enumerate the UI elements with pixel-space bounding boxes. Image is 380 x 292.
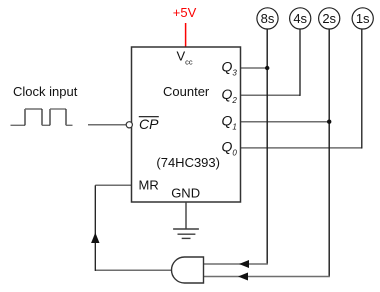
arrowhead feedback to MR bbox=[91, 233, 99, 244]
svg-text:GND: GND bbox=[171, 186, 200, 201]
arrowhead into AND input 2 bbox=[238, 273, 248, 281]
wire Q2 output bbox=[241, 29, 301, 96]
svg-text:Clock input: Clock input bbox=[13, 84, 78, 99]
wire 2s net vertical bbox=[328, 29, 330, 277]
svg-text:8s: 8s bbox=[261, 11, 275, 26]
wire +5V to Vcc bbox=[185, 23, 187, 47]
svg-text:4s: 4s bbox=[293, 11, 307, 26]
wire AND output feedback bbox=[95, 185, 171, 271]
terminal 2s bbox=[319, 8, 340, 29]
IC U1 74HC393 body bbox=[132, 47, 241, 202]
svg-text:Counter: Counter bbox=[163, 84, 210, 99]
junction node Q1-2s bbox=[327, 120, 331, 124]
svg-text:2s: 2s bbox=[322, 11, 336, 26]
svg-text:(74HC393): (74HC393) bbox=[156, 155, 220, 170]
and-gate U2 (mirrored, inputs right) bbox=[172, 257, 204, 283]
wire Q3 output bbox=[241, 67, 268, 69]
wire Q0 output bbox=[241, 29, 362, 149]
CP overline bbox=[139, 116, 159, 118]
CP inversion bubble bbox=[126, 122, 132, 128]
svg-text:1s: 1s bbox=[356, 11, 370, 26]
terminal 4s bbox=[290, 8, 311, 29]
clock waveform symbol bbox=[11, 109, 73, 125]
svg-text:+5V: +5V bbox=[173, 5, 197, 20]
arrowhead into AND input 1 bbox=[239, 260, 249, 268]
wire 8s net vertical bbox=[266, 29, 268, 264]
wire MR input bbox=[95, 184, 131, 186]
wire Q1 output bbox=[241, 121, 330, 123]
terminal 8s bbox=[257, 8, 278, 29]
svg-text:MR: MR bbox=[139, 178, 159, 193]
junction node Q3-8s bbox=[265, 66, 269, 70]
ground symbol bbox=[173, 202, 199, 238]
terminal 1s bbox=[352, 8, 373, 29]
wire clock to CP bbox=[88, 124, 126, 126]
wire AND input 2 bbox=[203, 276, 330, 278]
wire AND input 1 bbox=[203, 263, 268, 265]
svg-text:CP: CP bbox=[139, 116, 159, 132]
